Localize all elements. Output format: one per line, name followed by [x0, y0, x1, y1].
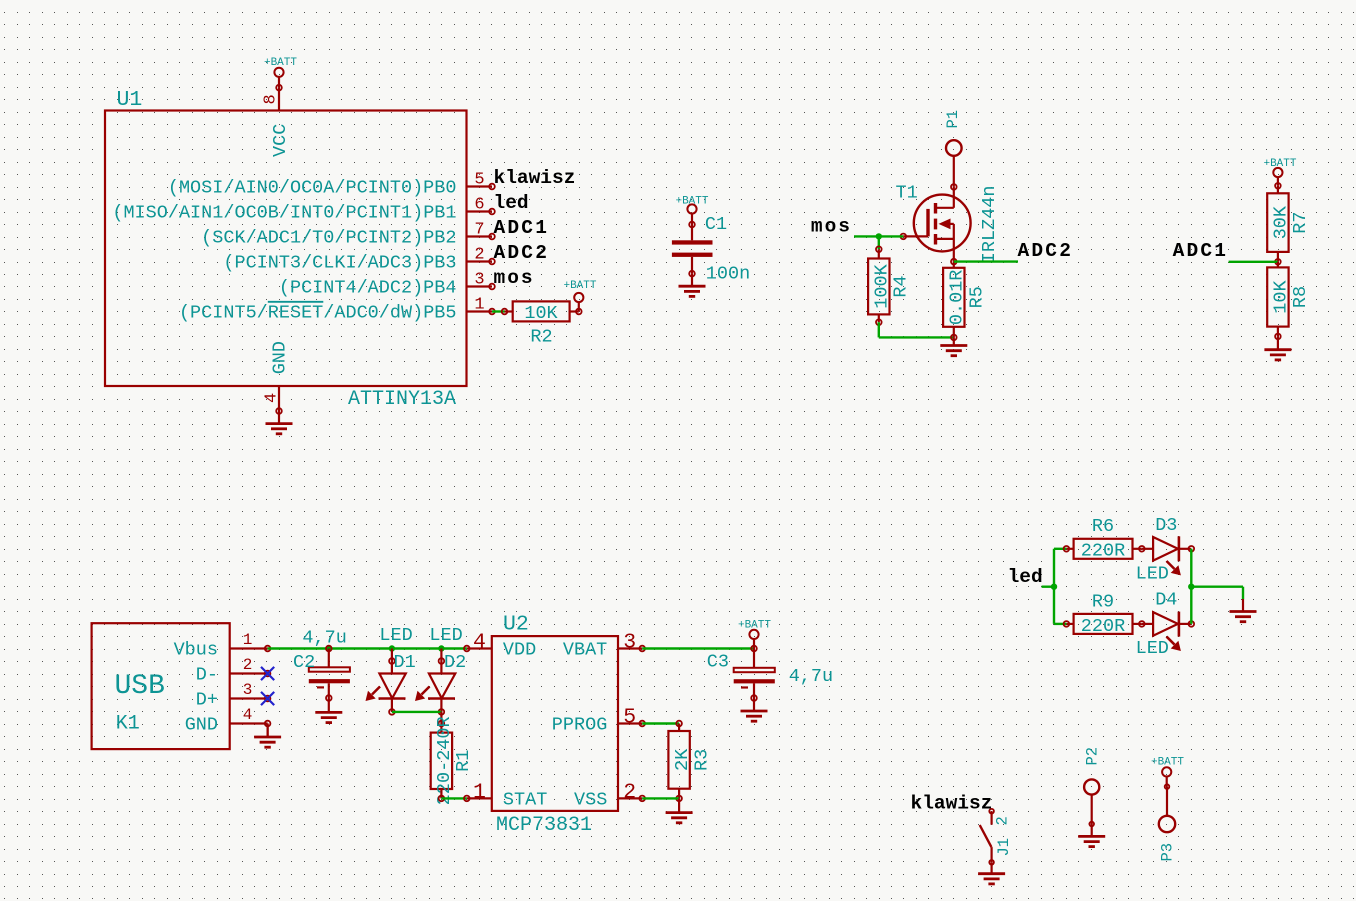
no-connect X on K1 pin 3 [261, 692, 274, 705]
svg-text:R5: R5 [967, 286, 988, 308]
junction mos wire to R4 [876, 233, 882, 239]
svg-text:C3: C3 [707, 652, 729, 673]
svg-text:(PCINT5/RESET/ADC0/dW)PB5: (PCINT5/RESET/ADC0/dW)PB5 [179, 303, 457, 324]
switch J1 blade [980, 825, 992, 847]
R8 top pin line [1277, 262, 1279, 268]
IC U2 body [492, 636, 618, 811]
P2 pin line [1091, 795, 1093, 824]
R4 bottom pin line [878, 314, 880, 322]
svg-text:1: 1 [243, 631, 253, 649]
R1 bottom tip circle [439, 796, 445, 802]
R6 right tip circle [1139, 546, 1145, 552]
IC U1 body [105, 111, 467, 387]
P3 pin tip circle [1165, 784, 1170, 789]
+BATT stem above R7 [1277, 177, 1279, 186]
R9 right tip circle [1139, 621, 1145, 627]
capacitor C2 bottom plate [309, 679, 350, 683]
K1 pin 2 tip circle [265, 671, 271, 677]
D3 anode lead [1142, 548, 1153, 550]
ground below R5 [940, 337, 967, 355]
K1 pin 4 tip circle [265, 721, 271, 727]
svg-text:VBAT: VBAT [563, 640, 607, 661]
R1 top pin line [440, 724, 442, 733]
power symbol +BATT above R7 [1273, 168, 1282, 177]
svg-text:R9: R9 [1092, 592, 1114, 613]
svg-text:(MISO/AIN1/OC0B/INT0/PCINT1)PB: (MISO/AIN1/OC0B/INT0/PCINT1)PB1 [112, 203, 456, 224]
ground below P2 [1078, 824, 1105, 847]
T1 body diode arrow [939, 219, 951, 230]
svg-text:klawisz: klawisz [494, 167, 576, 189]
LED D1 triangle [379, 674, 405, 699]
D3 right tip circle [1189, 546, 1195, 552]
connector P2 circle [1084, 779, 1099, 794]
R7 top pin line [1277, 186, 1279, 194]
LED D4 arrow [1167, 637, 1181, 651]
R3 top tip circle [676, 721, 682, 727]
D4 anode lead [1142, 623, 1153, 625]
power symbol +BATT above C3 [749, 630, 758, 639]
U2 pin 2 tip circle [639, 796, 645, 802]
svg-text:D-: D- [196, 665, 218, 686]
svg-text:P3: P3 [1159, 843, 1177, 862]
svg-text:4,7u: 4,7u [789, 666, 833, 687]
wire T1 source to ADC2 [954, 260, 1018, 262]
C2 top lead [328, 649, 330, 668]
C3 top tip circle [751, 646, 757, 652]
connector P1 circle [946, 140, 962, 156]
svg-text:Vbus: Vbus [174, 640, 218, 661]
R1 top lead [440, 712, 442, 724]
junction led node [1051, 584, 1057, 590]
R5 top pin line [953, 262, 955, 268]
svg-text:IRLZ44n: IRLZ44n [979, 185, 1000, 263]
wire U2 PPROG to R3 [642, 722, 679, 724]
capacitor C3 bottom plate [734, 679, 775, 683]
svg-text:R1: R1 [453, 750, 474, 772]
R1 bottom pin line [440, 789, 442, 798]
svg-text:30K: 30K [1271, 205, 1292, 239]
resistor R5 body [943, 268, 964, 327]
svg-text:klawisz: klawisz [911, 793, 993, 815]
svg-text:VSS: VSS [574, 789, 607, 810]
U1 pin 5 tip circle [489, 184, 495, 190]
P2 pin tip circle [1089, 822, 1094, 827]
D2 bottom tip circle [439, 709, 445, 715]
wire led node to R6 [1054, 548, 1066, 550]
wire R4 to R5 bottom [879, 336, 954, 338]
svg-text:4: 4 [263, 393, 282, 403]
junction at D1 top [389, 645, 395, 651]
svg-text:U2: U2 [503, 613, 529, 637]
svg-text:(SCK/ADC1/T0/PCINT2)PB2: (SCK/ADC1/T0/PCINT2)PB2 [201, 228, 456, 249]
D2 anode lead [440, 661, 442, 674]
svg-text:220R: 220R [1081, 616, 1125, 637]
svg-text:100K: 100K [872, 263, 893, 308]
svg-text:220-240R: 220-240R [434, 716, 455, 805]
svg-text:R2: R2 [530, 327, 552, 348]
K1 pin 3 line [230, 697, 268, 699]
T1 drain horizontal [936, 207, 954, 209]
R5 bottom pin tip circle [951, 335, 957, 341]
capacitor C2 top plate [309, 667, 350, 671]
svg-text:PPROG: PPROG [552, 715, 608, 736]
J1 top pin line [990, 811, 992, 825]
svg-text:VDD: VDD [503, 640, 536, 661]
U1 pin 1 line [467, 310, 493, 312]
wire led node to R9 [1054, 623, 1066, 625]
power symbol +BATT above C1 [687, 204, 696, 213]
resistor R7 body [1267, 193, 1288, 252]
svg-text:3: 3 [474, 270, 484, 289]
R3 bottom pin line [678, 789, 680, 799]
wire R1 bottom to U2 STAT [441, 797, 466, 799]
wire mos to T1 gate [854, 235, 903, 237]
R1 top tip circle [439, 721, 445, 727]
resistor R3 body [668, 731, 689, 789]
ground at K1 pin 4 [254, 724, 281, 748]
U2 pin 5 line [618, 722, 642, 724]
wire cathode node right [1191, 586, 1243, 588]
D1 bottom tip circle [389, 709, 395, 715]
U1 pin 5 line [467, 185, 493, 187]
svg-text:R6: R6 [1092, 516, 1114, 537]
LED D3 arrow [1167, 561, 1181, 575]
ground at LED cathodes [1230, 599, 1257, 622]
wire U2 VBAT to C3 [642, 647, 754, 649]
svg-text:7: 7 [474, 220, 484, 239]
C2 minus sign [317, 686, 324, 688]
U1 pin 1 tip circle [489, 309, 495, 315]
C3 top lead [753, 649, 755, 668]
C3 bottom lead [753, 683, 755, 698]
R3 top pin line [678, 724, 680, 732]
svg-text:D+: D+ [196, 690, 218, 711]
svg-text:ATTINY13A: ATTINY13A [348, 388, 456, 411]
capacitor C1 top plate [672, 240, 713, 244]
C1 top pin tip circle [689, 222, 695, 228]
wire junction down to R4 [878, 236, 880, 249]
wire led node vertical [1053, 549, 1055, 624]
svg-text:USB: USB [115, 671, 165, 702]
D4 cathode lead [1179, 623, 1191, 625]
svg-text:LED: LED [379, 625, 412, 646]
power symbol +BATT at R2 [574, 293, 583, 302]
+BATT stem above C1 [691, 214, 693, 225]
P1 / T1 drain tip circle [951, 184, 957, 190]
D2 top tip circle [439, 658, 445, 664]
resistor R9 body [1074, 614, 1133, 634]
svg-text:6: 6 [474, 195, 484, 214]
svg-text:+BATT: +BATT [675, 195, 708, 207]
svg-text:(MOSI/AIN0/OC0A/PCINT0)PB0: (MOSI/AIN0/OC0A/PCINT0)PB0 [168, 178, 457, 199]
R8 bottom pin line [1277, 327, 1279, 337]
D2 top lead [440, 649, 442, 662]
resistor R1 body [431, 733, 452, 789]
U1 pin 4 tip circle [276, 408, 282, 414]
U1 pin 6 line [467, 210, 493, 212]
overline over RESET in PB5 pin name [268, 301, 324, 303]
LED D3 triangle [1153, 537, 1178, 561]
svg-text:U1: U1 [117, 88, 143, 112]
power symbol +BATT above P3 [1162, 767, 1171, 776]
D4 right tip circle [1189, 621, 1195, 627]
junction at C2 top [326, 645, 332, 651]
U1 pin 4 GND pin line [278, 386, 280, 411]
svg-text:2: 2 [474, 245, 484, 264]
R3 bottom tip circle [676, 796, 682, 802]
ground below U1 [266, 411, 293, 434]
U2 pin 4 tip circle [464, 646, 470, 652]
U1 pin 7 tip circle [489, 234, 495, 240]
resistor R6 body [1074, 539, 1133, 559]
T1 source vertical [953, 224, 955, 262]
svg-text:ADC1: ADC1 [494, 217, 550, 239]
svg-text:1: 1 [473, 780, 486, 804]
svg-text:(PCINT4/ADC2)PB4: (PCINT4/ADC2)PB4 [279, 278, 457, 299]
R2 left pin line [505, 310, 513, 312]
R9 right pin line [1133, 623, 1142, 625]
K1 pin 3 tip circle [265, 696, 271, 702]
svg-text:ADC2: ADC2 [494, 242, 550, 264]
svg-text:4: 4 [243, 706, 253, 724]
ground below C2 [315, 698, 342, 723]
R4 top pin line [878, 249, 880, 258]
svg-text:4,7u: 4,7u [302, 628, 346, 649]
D3 cathode lead [1179, 548, 1191, 550]
svg-text:D2: D2 [444, 652, 466, 673]
svg-text:STAT: STAT [503, 789, 547, 810]
LED D2 triangle [429, 674, 455, 699]
R8 bottom pin tip circle [1275, 334, 1281, 340]
C3 bottom tip circle [751, 695, 757, 701]
svg-text:LED: LED [1136, 564, 1169, 585]
U1 pin 6 tip circle [489, 209, 495, 215]
U1 pin 3 line [467, 285, 493, 287]
wire R4 bottom down [878, 322, 880, 337]
T1 gate bar [926, 209, 929, 237]
svg-text:5: 5 [623, 706, 636, 730]
T1 source tip circle [951, 259, 957, 265]
LED D4 cathode bar [1178, 612, 1181, 637]
svg-text:R7: R7 [1290, 211, 1311, 233]
+BATT stem above U1 [278, 77, 280, 88]
wire U2 VSS to R3 bottom [642, 797, 679, 799]
svg-text:(PCINT3/CLKI/ADC3)PB3: (PCINT3/CLKI/ADC3)PB3 [223, 253, 456, 274]
wire down to ground at LEDs [1242, 587, 1244, 599]
power symbol +BATT above U1 [274, 68, 283, 77]
C1 top lead [691, 225, 693, 241]
U1 pin 8 tip circle [276, 85, 282, 91]
svg-text:D4: D4 [1155, 589, 1177, 610]
J1 bottom pin line [990, 847, 992, 862]
LED D2 arrow [415, 687, 430, 702]
+BATT stem above P3 [1166, 777, 1168, 787]
R9 left tip circle [1064, 621, 1070, 627]
connector K1 body [92, 623, 230, 749]
svg-text:P2: P2 [1084, 747, 1102, 766]
svg-text:2K: 2K [672, 748, 693, 771]
svg-text:2: 2 [243, 656, 253, 674]
svg-text:D3: D3 [1155, 515, 1177, 536]
U2 pin 1 line [467, 797, 492, 799]
U2 pin 1 tip circle [464, 796, 470, 802]
svg-text:ADC2: ADC2 [1018, 240, 1074, 262]
C1 bottom pin tip circle [689, 271, 695, 277]
P3 pin line [1166, 787, 1168, 816]
svg-text:2: 2 [994, 816, 1012, 825]
K1 pin 1 tip circle [265, 646, 271, 652]
T1 drain lead [953, 187, 955, 208]
svg-text:+BATT: +BATT [738, 620, 771, 632]
svg-text:3: 3 [243, 681, 253, 699]
R4 bottom pin tip circle [876, 319, 882, 325]
+BATT stem above C3 [753, 639, 755, 649]
wire K1 Vbus to U2 VDD [268, 647, 467, 649]
svg-text:8: 8 [262, 94, 281, 104]
K1 pin 4 ground lead [267, 724, 269, 738]
svg-text:GND: GND [270, 341, 291, 374]
svg-text:3: 3 [623, 631, 636, 655]
node R7/R8 tip circle [1275, 259, 1281, 265]
svg-text:5: 5 [474, 170, 484, 189]
R7 bottom pin line [1277, 252, 1279, 262]
wire ADC1 to divider [1229, 261, 1278, 263]
capacitor C3 top plate [734, 668, 775, 672]
U1 pin 2 tip circle [489, 259, 495, 265]
U1 pin 3 tip circle [489, 284, 495, 290]
svg-text:C2: C2 [293, 652, 315, 673]
ground below R8 [1264, 336, 1291, 360]
R6 left tip circle [1064, 546, 1070, 552]
C1 bottom lead [691, 257, 693, 274]
K1 pin 1 line [230, 647, 268, 649]
svg-text:led: led [1008, 566, 1043, 588]
K1 pin 2 line [230, 672, 268, 674]
svg-text:4: 4 [473, 631, 486, 655]
svg-text:led: led [494, 192, 529, 214]
LED D2 cathode bar [428, 697, 455, 700]
svg-text:LED: LED [1136, 638, 1169, 659]
wire led label to junction [1042, 586, 1054, 588]
svg-text:MCP73831: MCP73831 [496, 814, 592, 837]
R4 top pin tip circle [876, 246, 882, 252]
wire D1 bottom to D2 bottom [392, 711, 442, 713]
J1 top pin tip circle [989, 809, 994, 814]
T1 gate pin tip circle [901, 234, 907, 240]
U2 pin 2 line [618, 797, 642, 799]
ground below J1 [978, 862, 1005, 884]
D1 anode lead [391, 661, 393, 674]
J1 bottom pin tip circle [989, 860, 994, 865]
R2 left pin tip circle [502, 309, 508, 315]
U1 pin 7 line [467, 235, 493, 237]
U2 pin 3 line [618, 647, 642, 649]
C2 bottom lead [328, 683, 330, 698]
LED D1 arrow [366, 687, 381, 702]
resistor R4 body [868, 259, 889, 315]
svg-text:J1: J1 [995, 838, 1013, 857]
svg-text:2: 2 [623, 780, 636, 804]
T1 channel middle contact bar [934, 219, 937, 230]
connector P3 circle [1159, 816, 1175, 832]
U2 pin 3 tip circle [639, 646, 645, 652]
R5 bottom pin line [953, 327, 955, 338]
U1 pin 2 line [467, 260, 493, 262]
P1 pin line [953, 156, 955, 187]
svg-text:100n: 100n [706, 263, 750, 284]
T1 source horizontal [936, 238, 954, 240]
svg-text:K1: K1 [116, 713, 140, 736]
svg-text:GND: GND [185, 715, 218, 736]
transistor T1 body circle [914, 195, 971, 252]
svg-text:C1: C1 [705, 214, 727, 235]
LED D3 cathode bar [1178, 536, 1181, 561]
R2 right pin line [570, 310, 579, 312]
R6 left pin line [1066, 548, 1073, 550]
no-connect X on K1 pin 2 [261, 667, 274, 680]
resistor R2 body [513, 301, 570, 321]
svg-text:LED: LED [429, 625, 462, 646]
LED D4 triangle [1153, 612, 1178, 636]
svg-text:mos: mos [811, 216, 852, 238]
R9 left pin line [1066, 623, 1073, 625]
T1 channel top contact bar [934, 203, 937, 214]
ground below C3 [741, 698, 768, 721]
svg-text:R8: R8 [1290, 286, 1311, 308]
svg-text:T1: T1 [896, 183, 918, 204]
resistor R8 body [1267, 267, 1288, 326]
C2 bottom tip circle [326, 695, 332, 701]
T1 middle horizontal [948, 223, 954, 225]
svg-text:P1: P1 [944, 110, 962, 129]
ground below R3 [666, 798, 693, 822]
K1 pin 4 line [230, 722, 268, 724]
junction cathode node [1188, 584, 1194, 590]
D2 bottom lead [440, 699, 442, 712]
svg-text:220R: 220R [1081, 540, 1125, 561]
svg-text:+BATT: +BATT [563, 280, 596, 292]
ground below C1 [679, 274, 706, 297]
svg-text:VCC: VCC [270, 124, 291, 157]
svg-text:R3: R3 [692, 749, 713, 771]
LED D1 cathode bar [379, 697, 406, 700]
svg-text:+BATT: +BATT [1263, 158, 1296, 170]
R6 right pin line [1133, 548, 1142, 550]
wire U1 pin1 to R2 [492, 310, 505, 312]
D1 bottom lead [391, 699, 393, 712]
R7 top pin tip circle [1275, 183, 1281, 189]
U2 pin 4 line [467, 647, 492, 649]
wire D3-D4 cathode vertical [1190, 549, 1192, 624]
junction at D2 top [438, 645, 444, 651]
svg-text:mos: mos [494, 267, 535, 289]
U1 pin 8 VCC pin line [278, 88, 280, 111]
svg-text:+BATT: +BATT [1151, 757, 1184, 769]
svg-text:10K: 10K [524, 303, 558, 324]
T1 gate pin line [903, 235, 928, 237]
svg-text:1: 1 [474, 295, 484, 314]
svg-text:+BATT: +BATT [264, 57, 297, 69]
svg-text:10K: 10K [1271, 279, 1292, 313]
U2 pin 5 tip circle [639, 721, 645, 727]
svg-text:ADC1: ADC1 [1173, 240, 1229, 262]
svg-text:R4: R4 [891, 275, 912, 297]
D1 top lead [391, 649, 393, 662]
svg-text:D1: D1 [394, 652, 416, 673]
D1 top tip circle [389, 658, 395, 664]
svg-text:0.01R: 0.01R [947, 270, 968, 326]
capacitor C1 bottom plate [672, 253, 713, 257]
